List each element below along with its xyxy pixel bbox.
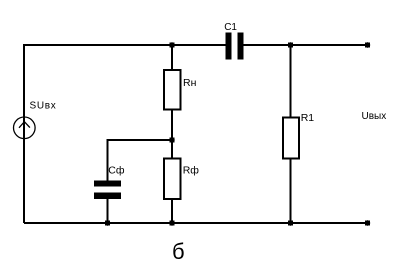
svg-text:Rн: Rн [183, 77, 197, 89]
svg-text:Rф: Rф [183, 164, 200, 176]
svg-text:C1: C1 [224, 22, 237, 33]
svg-text:Uвых: Uвых [362, 111, 387, 122]
svg-text:SUвх: SUвх [30, 100, 57, 111]
svg-text:R1: R1 [301, 112, 315, 124]
svg-text:Сф: Сф [108, 164, 125, 176]
svg-text:б: б [172, 239, 185, 264]
